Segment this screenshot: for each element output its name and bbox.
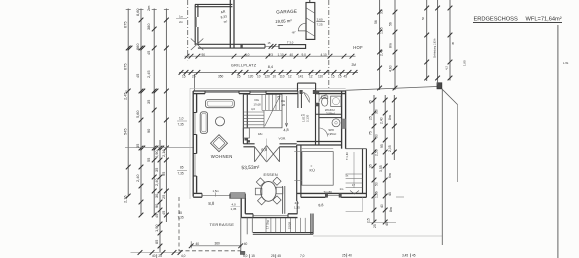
svg-text:8m: 8m [389,207,393,212]
svg-text:-97: -97 [291,30,296,35]
svg-text:4,0: 4,0 [181,254,186,258]
svg-text:120: 120 [265,74,271,78]
svg-text:KÜ: KÜ [310,169,316,173]
svg-text:40: 40 [152,254,156,258]
svg-text:15: 15 [268,41,271,45]
svg-text:1,35: 1,35 [294,206,300,210]
svg-text:T=1,80: T=1,80 [346,152,349,160]
svg-text:4,0: 4,0 [251,107,255,111]
svg-text:95: 95 [380,144,384,148]
svg-text:56: 56 [374,20,378,24]
svg-text:L.W.: L.W. [563,61,569,65]
svg-text:35: 35 [146,100,151,104]
svg-text:WOHNEN: WOHNEN [211,154,233,159]
svg-text:2,16: 2,16 [161,149,166,157]
svg-text:95: 95 [161,172,166,176]
svg-text:6,8: 6,8 [261,147,268,153]
svg-text:45: 45 [412,254,416,258]
svg-text:8m: 8m [388,115,392,120]
svg-text:545: 545 [123,129,128,136]
svg-text:2,55: 2,55 [375,149,379,156]
svg-text:1,36: 1,36 [375,191,379,198]
svg-text:12: 12 [288,74,292,78]
svg-text:45: 45 [451,41,455,45]
svg-text:50: 50 [375,134,379,138]
svg-text:75: 75 [369,131,373,135]
svg-text:25: 25 [342,254,346,258]
svg-text:5,0: 5,0 [243,254,248,258]
svg-text:45: 45 [154,214,159,218]
svg-text:2,0: 2,0 [301,113,305,117]
svg-text:45: 45 [277,254,281,258]
svg-text:25: 25 [373,224,377,228]
svg-text:ERDGESCHOSS: ERDGESCHOSS [474,16,518,22]
svg-text:25: 25 [192,74,196,78]
svg-text:110: 110 [318,74,323,78]
svg-text:15: 15 [251,254,255,258]
svg-text:2m: 2m [146,6,151,11]
svg-text:8m: 8m [389,43,393,48]
svg-text:15: 15 [182,74,186,78]
svg-text:m²: m² [223,19,227,24]
svg-text:15: 15 [331,74,335,78]
svg-text:2,40: 2,40 [380,117,384,124]
svg-text:30: 30 [154,193,159,198]
svg-text:25: 25 [237,74,241,78]
svg-text:90: 90 [146,128,151,133]
svg-text:7,0: 7,0 [300,254,305,258]
svg-text:4,0: 4,0 [245,53,250,57]
svg-text:1,5m: 1,5m [213,189,220,193]
svg-text:19,05 m²: 19,05 m² [275,18,292,24]
svg-text:T 3,0: T 3,0 [287,41,294,45]
svg-text:ESSEN: ESSEN [264,173,278,177]
svg-text:45: 45 [146,51,151,55]
svg-text:50: 50 [375,182,379,186]
svg-text:860: 860 [135,43,140,50]
svg-text:110: 110 [280,74,285,78]
svg-text:1,80: 1,80 [463,60,467,66]
svg-text:15/28: 15/28 [288,222,292,229]
svg-text:35: 35 [135,144,140,148]
svg-text:90: 90 [202,53,206,57]
svg-text:360: 360 [215,242,221,246]
svg-text:10: 10 [257,74,261,78]
svg-text:2,05: 2,05 [388,145,392,152]
svg-text:4,60: 4,60 [389,65,393,72]
svg-text:WFL=71,64m²: WFL=71,64m² [526,16,562,22]
svg-text:1,95m²: 1,95m² [327,132,336,136]
svg-text:25: 25 [161,195,166,199]
svg-text:53,53m²: 53,53m² [241,165,260,172]
svg-text:45: 45 [369,100,373,104]
svg-text:3,45: 3,45 [402,254,408,258]
svg-text:15: 15 [367,218,371,222]
svg-text:VOR.: VOR. [279,136,287,140]
svg-text:1m: 1m [340,187,345,191]
svg-text:40: 40 [244,242,248,246]
svg-text:GRILLPLATZ: GRILLPLATZ [231,64,257,68]
svg-text:45: 45 [135,74,140,78]
svg-text:4,0: 4,0 [232,203,237,207]
svg-text:2,60: 2,60 [317,18,323,22]
svg-text:675: 675 [123,22,128,29]
svg-text:2M: 2M [352,63,357,67]
svg-text:Tm 80: Tm 80 [324,190,333,194]
svg-text:4,10: 4,10 [321,53,327,57]
svg-text:55: 55 [146,158,151,162]
svg-text:35: 35 [369,164,373,168]
svg-text:45: 45 [385,222,389,226]
svg-text:=: = [311,164,313,168]
svg-text:2,16: 2,16 [123,195,128,203]
svg-text:1,85: 1,85 [380,27,384,34]
svg-text:25: 25 [271,254,275,258]
svg-text:5,60: 5,60 [135,110,140,118]
svg-text:56: 56 [389,22,393,26]
svg-text:3,55: 3,55 [379,165,383,172]
svg-text:2,45: 2,45 [123,92,128,100]
svg-text:1,10: 1,10 [278,53,284,57]
svg-text:40: 40 [290,53,294,57]
svg-text:2m: 2m [179,20,184,24]
svg-text:10: 10 [273,74,277,78]
svg-text:1,90: 1,90 [154,224,159,232]
svg-text:7,25: 7,25 [317,23,323,27]
svg-text:3,98m²: 3,98m² [326,111,335,115]
svg-text:3,0: 3,0 [375,109,379,114]
svg-text:DG: DG [255,98,260,102]
svg-text:17 Stg: 17 Stg [266,220,270,229]
svg-text:4,2: 4,2 [445,66,449,70]
svg-text:8,60: 8,60 [135,8,140,16]
svg-text:141: 141 [298,74,304,78]
svg-text:7,35: 7,35 [178,123,184,127]
svg-text:45: 45 [388,192,392,196]
svg-text:2,40: 2,40 [380,49,384,56]
svg-text:2,40: 2,40 [135,174,140,182]
svg-text:2,45: 2,45 [146,70,151,78]
svg-text:8,4: 8,4 [268,65,273,69]
svg-text:3,0: 3,0 [380,9,384,14]
svg-text:45: 45 [161,211,166,215]
svg-text:40: 40 [348,254,352,258]
svg-text:2,135: 2,135 [306,114,310,122]
svg-text:7,35: 7,35 [178,172,184,176]
svg-text:17x18: 17x18 [254,103,262,107]
svg-text:85: 85 [180,166,184,170]
svg-text:6m: 6m [388,173,392,178]
svg-text:7,35: 7,35 [178,216,184,220]
svg-text:18x: 18x [258,132,263,136]
svg-text:25: 25 [158,254,162,258]
svg-text:4,8: 4,8 [283,128,289,133]
svg-text:1m: 1m [179,15,184,19]
svg-text:2,40: 2,40 [154,178,159,186]
svg-text:1,0: 1,0 [179,117,184,121]
svg-text:12: 12 [309,74,313,78]
svg-text:15: 15 [338,74,342,78]
svg-text:85: 85 [154,240,159,244]
svg-text:9,0: 9,0 [302,53,307,57]
svg-text:Einfriedung 1,80 h: Einfriedung 1,80 h [434,38,437,58]
svg-text:GARAGE: GARAGE [276,9,297,15]
svg-text:HOF: HOF [353,45,363,50]
svg-text:25: 25 [369,116,373,120]
svg-text:4,0: 4,0 [295,201,300,205]
svg-text:40: 40 [196,242,200,246]
svg-text:17: 17 [352,183,355,187]
svg-text:3,3: 3,3 [269,53,274,57]
svg-text:45: 45 [344,74,348,78]
svg-text:TERRASSE: TERRASSE [210,222,235,227]
svg-text:1,35: 1,35 [231,207,237,211]
svg-text:120: 120 [248,74,254,78]
svg-text:675: 675 [123,64,128,71]
svg-text:26: 26 [282,103,286,107]
svg-text:8,8: 8,8 [208,201,215,206]
svg-text:40: 40 [380,204,384,208]
svg-text:350: 350 [218,74,224,78]
svg-text:56: 56 [421,16,425,20]
svg-text:380: 380 [146,23,151,30]
svg-text:8,8: 8,8 [318,203,323,207]
svg-text:35: 35 [154,168,159,172]
svg-text:4,90: 4,90 [154,150,159,158]
